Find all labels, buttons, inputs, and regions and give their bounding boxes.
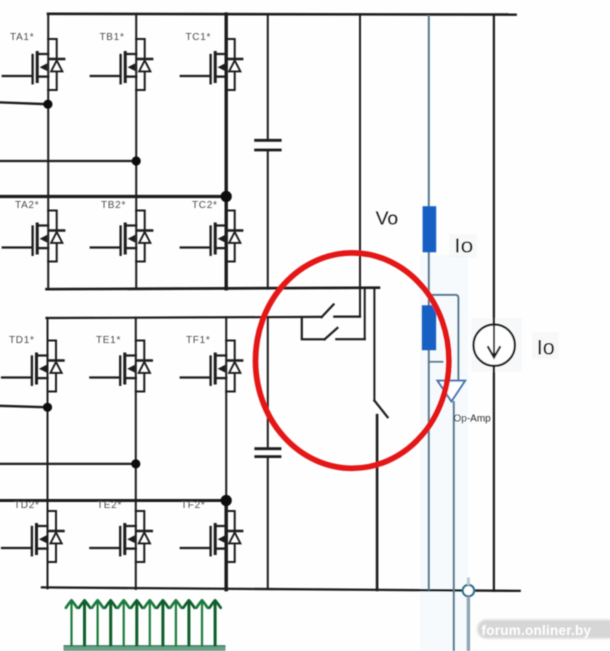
wire: phase A to left edge	[0, 102, 48, 104]
pulse arrow 9	[175, 603, 177, 647]
wire: upper bridge bottom bus	[47, 288, 379, 290]
svg-text:Io: Io	[537, 336, 555, 360]
wire: blue line below R2 to bottom	[428, 350, 430, 590]
wire: cap column lower segments	[267, 317, 269, 589]
wire: node tail below	[467, 597, 470, 651]
current source Io	[474, 325, 515, 366]
svg-text:TD1*: TD1*	[9, 335, 35, 346]
junction dot phase A	[43, 100, 52, 109]
wire: leg C (upper, bold)	[224, 14, 227, 289]
wire: blue line between resistors	[428, 252, 430, 306]
pulse arrow 8	[161, 603, 164, 647]
highlight patch behind right Io label	[532, 332, 559, 359]
transistor TE1	[90, 341, 152, 392]
svg-text:Op-Amp: Op-Amp	[454, 413, 492, 424]
wire: vertical from bus to switch S2 contact	[364, 288, 366, 339]
svg-text:TC1*: TC1*	[186, 32, 212, 43]
wire: phase D to left edge	[0, 406, 48, 408]
junction dot phase F	[221, 495, 232, 506]
junction dot phase E	[131, 459, 140, 468]
pulse arrow 1	[70, 603, 72, 647]
svg-text:TF2*: TF2*	[181, 500, 205, 511]
wire: op-amp output line	[453, 401, 455, 651]
wire: phase B to left edge	[0, 160, 136, 162]
transistor TA1	[3, 39, 64, 90]
svg-text:TA2*: TA2*	[15, 200, 39, 211]
junction dot phase C	[221, 191, 232, 202]
wire: bottom return line	[42, 587, 520, 591]
pulse baseline bar	[64, 646, 226, 651]
transistor TC1	[181, 39, 243, 90]
op-amp U1	[437, 381, 465, 402]
svg-text:TB1*: TB1*	[100, 32, 125, 43]
wire: leg D (lower)	[47, 318, 49, 589]
svg-text:TB2*: TB2*	[101, 200, 126, 211]
switch S3 lower wire	[376, 415, 379, 590]
wire: phase E to left edge	[0, 463, 136, 465]
switch S1 blade and contact	[322, 304, 361, 317]
transistor TA2	[3, 211, 64, 262]
capacitor C1 plates	[256, 140, 281, 150]
transistor TE2	[90, 511, 152, 562]
red highlight ellipse	[256, 253, 449, 468]
pulse arrow 4	[109, 603, 112, 647]
transistor TD1	[2, 341, 64, 392]
svg-text:TD2*: TD2*	[14, 500, 40, 511]
wire: lower bridge top rail	[47, 317, 322, 318]
svg-text:TA1*: TA1*	[10, 32, 34, 43]
wire: blue sense line top	[428, 15, 430, 207]
pulse arrow 7	[149, 603, 151, 647]
transistor TB2	[91, 211, 153, 262]
transistor TB1	[91, 39, 153, 90]
transistor TD2	[2, 511, 64, 562]
wire: phase F to left edge (bold)	[0, 499, 226, 502]
pulse arrow 3	[96, 603, 98, 647]
wire: leg F lower part (bold)	[224, 501, 228, 590]
svg-text:Vo: Vo	[376, 207, 399, 228]
pulse arrow 10	[187, 603, 190, 647]
wire: right vertical with current source	[493, 15, 495, 591]
transistor TF2	[181, 511, 243, 562]
wire: leg E (lower)	[135, 318, 137, 589]
svg-text:TF1*: TF1*	[186, 335, 210, 346]
highlight band (pale blue wash behind sense network)	[420, 255, 468, 651]
junction dot phase D	[43, 403, 52, 412]
wire: phase C to left edge (bold)	[0, 195, 226, 198]
wire: leg A (upper)	[47, 14, 49, 290]
pulse arrow 5	[123, 603, 125, 647]
transistor TF1	[181, 341, 243, 392]
node: output node circle	[463, 585, 474, 596]
sense line (blue) with resistors	[428, 15, 459, 651]
switch S3 blade	[374, 401, 387, 418]
wire: leg F upper part	[225, 317, 227, 500]
wire: DC-link cap column upper segments	[267, 14, 269, 288]
resistor R2 (blue)	[422, 305, 436, 350]
junction dot phase B	[132, 156, 141, 165]
transistor TC2	[181, 211, 243, 262]
capacitor C2 plates	[256, 449, 280, 457]
svg-text:TE2*: TE2*	[97, 500, 122, 511]
wire: op-amp inverting input stub	[428, 361, 444, 363]
pulse arrow 2	[83, 603, 86, 647]
switch S3 upper wire	[373, 288, 375, 401]
wire: faint stub above node	[467, 578, 470, 586]
svg-text:forum.onliner.by: forum.onliner.by	[482, 623, 592, 638]
svg-text:TC2*: TC2*	[192, 200, 218, 211]
pulse arrow 12	[214, 603, 217, 647]
highlight patch behind current source	[471, 318, 522, 372]
resistor R1 (blue)	[423, 206, 437, 252]
switch S2 bracket, blade and contact	[302, 317, 365, 339]
pulse arrow 11	[201, 603, 203, 647]
watermark pill	[0, 0, 1, 1]
wire: vertical from top rail to switch S1 contact	[359, 14, 361, 316]
green pulse train	[64, 600, 226, 651]
wire: leg B (upper)	[135, 14, 137, 289]
pulse arrow 6	[135, 603, 138, 647]
svg-text:Io: Io	[454, 236, 473, 258]
wire: top DC rail	[48, 13, 516, 16]
wire: blue box to op-amp	[429, 295, 459, 381]
svg-text:TE1*: TE1*	[96, 335, 121, 346]
highlight patch behind upper Io label	[449, 234, 477, 258]
